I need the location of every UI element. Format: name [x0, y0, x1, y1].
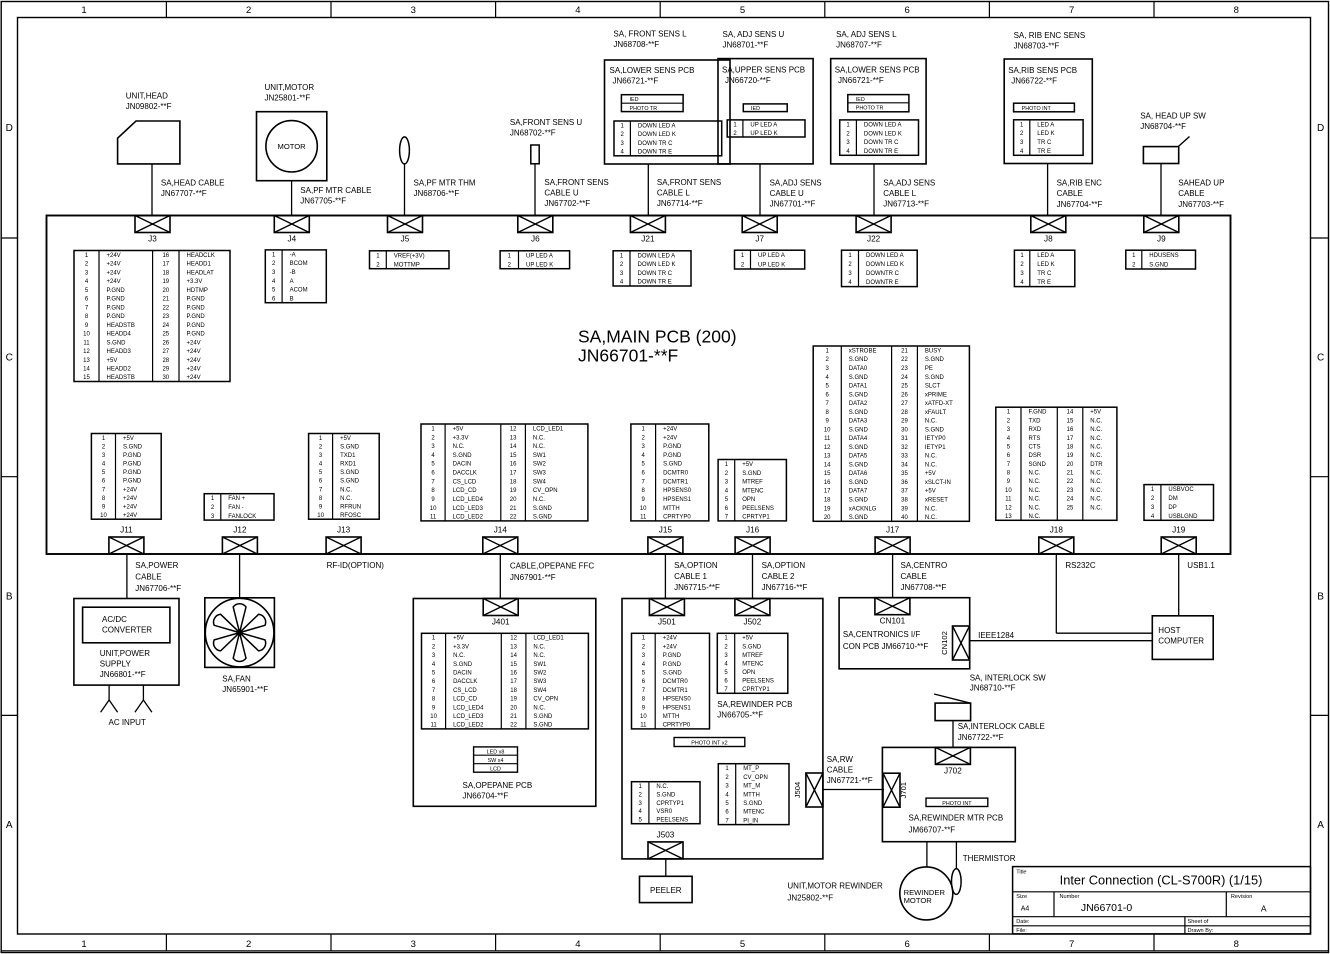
svg-text:JN68708-**F: JN68708-**F — [613, 40, 659, 49]
svg-text:15: 15 — [83, 375, 90, 381]
svg-text:+24V: +24V — [107, 279, 121, 285]
svg-text:SA,OPTION: SA,OPTION — [762, 561, 806, 570]
svg-text:USBVOC: USBVOC — [1168, 487, 1194, 493]
svg-text:A: A — [6, 820, 13, 831]
svg-text:S.GND: S.GND — [849, 357, 869, 363]
svg-text:CABLE: CABLE — [901, 572, 927, 581]
AC input fork 2 — [135, 685, 152, 712]
svg-text:19: 19 — [1067, 453, 1074, 459]
svg-text:xATFD-XT: xATFD-XT — [925, 401, 953, 407]
svg-text:23: 23 — [162, 314, 169, 320]
svg-text:P.GND: P.GND — [663, 662, 682, 668]
svg-text:CABLE: CABLE — [1178, 189, 1204, 198]
wire CN102 to host computer (IEEE1284) — [970, 640, 1153, 642]
wire J503 to peeler — [665, 859, 667, 876]
svg-text:40: 40 — [901, 515, 908, 521]
svg-text:UP LED K: UP LED K — [750, 131, 777, 137]
svg-text:S.GND: S.GND — [925, 375, 945, 381]
svg-text:MTTH: MTTH — [663, 714, 680, 720]
svg-text:CTS: CTS — [1029, 445, 1041, 451]
svg-text:N.C.: N.C. — [533, 497, 545, 503]
svg-text:UP LED A: UP LED A — [750, 122, 777, 128]
svg-text:DOWN TR C: DOWN TR C — [638, 141, 673, 147]
svg-text:MOTTMP: MOTTMP — [394, 262, 420, 268]
svg-text:HDUSENS: HDUSENS — [1149, 253, 1178, 259]
svg-text:19: 19 — [162, 279, 169, 285]
connector J14 — [483, 526, 518, 555]
svg-text:4: 4 — [575, 939, 580, 950]
pin table J8 — [1014, 250, 1074, 286]
svg-text:6: 6 — [904, 5, 909, 16]
svg-text:+5V: +5V — [742, 462, 753, 468]
svg-text:18: 18 — [510, 479, 517, 485]
svg-text:A: A — [290, 279, 294, 285]
svg-text:HOST: HOST — [1158, 626, 1180, 635]
svg-text:DATA2: DATA2 — [849, 401, 868, 407]
svg-text:IETYP1: IETYP1 — [925, 445, 946, 451]
svg-text:LED A: LED A — [1037, 253, 1054, 259]
svg-text:+5V: +5V — [340, 436, 351, 442]
svg-text:SA,REWINDER MTR PCB: SA,REWINDER MTR PCB — [909, 814, 1004, 823]
svg-text:+24V: +24V — [187, 340, 201, 346]
svg-text:SUPPLY: SUPPLY — [100, 659, 132, 668]
unit UNIT,POWER SUPPLY — [74, 599, 179, 686]
connector J13 — [326, 526, 361, 555]
svg-text:18: 18 — [1067, 445, 1074, 451]
svg-text:25: 25 — [901, 384, 908, 390]
svg-text:14: 14 — [1067, 410, 1074, 416]
svg-text:N.C.: N.C. — [1090, 505, 1102, 511]
pin table sensor RIB — [1014, 120, 1084, 156]
svg-text:MTENC: MTENC — [742, 488, 764, 494]
connector J4 — [274, 216, 309, 244]
svg-text:JN66721-**F: JN66721-**F — [613, 77, 659, 86]
pin table J503 — [632, 782, 701, 824]
svg-text:JN68703-**F: JN68703-**F — [1014, 41, 1060, 50]
svg-text:39: 39 — [901, 506, 908, 512]
svg-text:LCD_LED3: LCD_LED3 — [453, 506, 484, 512]
svg-text:JN67716-**F: JN67716-**F — [762, 583, 808, 592]
svg-text:UNIT,HEAD: UNIT,HEAD — [126, 92, 168, 101]
svg-text:DOWN LED A: DOWN LED A — [866, 253, 904, 259]
connector CN101 — [875, 598, 910, 626]
svg-text:DOWN TR C: DOWN TR C — [638, 271, 673, 277]
svg-text:xACKNLG: xACKNLG — [849, 506, 877, 512]
svg-text:+24V: +24V — [107, 262, 121, 268]
svg-text:N.C.: N.C. — [340, 496, 352, 502]
svg-text:LCD_CD: LCD_CD — [453, 697, 478, 703]
svg-text:HEADCLK: HEADCLK — [187, 253, 215, 259]
svg-text:S.GND: S.GND — [663, 671, 683, 677]
svg-text:+24V: +24V — [107, 253, 121, 259]
svg-text:SA,CENTRO: SA,CENTRO — [901, 561, 948, 570]
zone row ticks — [1, 238, 1328, 715]
svg-text:TR C: TR C — [1037, 140, 1052, 146]
svg-text:CABLE U: CABLE U — [544, 188, 578, 197]
svg-text:ACOM: ACOM — [290, 288, 308, 294]
svg-text:TR E: TR E — [1037, 280, 1051, 286]
svg-text:16: 16 — [510, 671, 517, 677]
svg-text:S.GND: S.GND — [340, 470, 360, 476]
svg-text:29: 29 — [162, 367, 169, 373]
connector J702 — [935, 747, 970, 775]
svg-text:UNIT,MOTOR REWINDER: UNIT,MOTOR REWINDER — [787, 882, 883, 891]
svg-text:N.C.: N.C. — [925, 454, 937, 460]
svg-text:JN67702-**F: JN67702-**F — [544, 199, 590, 208]
svg-text:S.GND: S.GND — [453, 453, 473, 459]
svg-text:+24V: +24V — [663, 435, 677, 441]
svg-text:SW4: SW4 — [533, 479, 547, 485]
svg-text:+5V: +5V — [1090, 410, 1101, 416]
svg-text:RTS: RTS — [1029, 436, 1041, 442]
svg-text:7: 7 — [1069, 939, 1074, 950]
svg-text:PE: PE — [925, 366, 933, 372]
svg-text:2: 2 — [246, 5, 251, 16]
connector J8 — [1031, 216, 1066, 244]
svg-text:29: 29 — [901, 419, 908, 425]
svg-text:J3: J3 — [148, 235, 157, 244]
svg-text:HEADD2: HEADD2 — [107, 367, 132, 373]
svg-text:N.C.: N.C. — [453, 444, 465, 450]
svg-text:DATA1: DATA1 — [849, 384, 868, 390]
svg-text:USBLGND: USBLGND — [1168, 514, 1198, 520]
svg-text:HPSENS1: HPSENS1 — [663, 497, 692, 503]
svg-text:+24V: +24V — [123, 496, 137, 502]
svg-text:J8: J8 — [1044, 235, 1053, 244]
svg-text:DOWN TR C: DOWN TR C — [864, 140, 899, 146]
svg-text:SW3: SW3 — [533, 679, 547, 685]
svg-text:B: B — [1317, 592, 1324, 603]
svg-text:JN66720-**F: JN66720-**F — [725, 76, 771, 85]
unit SA,FAN — [205, 598, 275, 668]
svg-text:CONVERTER: CONVERTER — [102, 626, 152, 635]
svg-text:MT_P: MT_P — [743, 766, 759, 772]
svg-text:DATA3: DATA3 — [849, 419, 868, 425]
pin table J5 — [370, 251, 450, 269]
svg-text:SA,REWINDER PCB: SA,REWINDER PCB — [717, 700, 792, 709]
svg-text:16: 16 — [1067, 427, 1074, 433]
svg-text:15: 15 — [510, 662, 517, 668]
svg-text:SA,MAIN PCB (200): SA,MAIN PCB (200) — [578, 327, 737, 347]
svg-text:PEELER: PEELER — [650, 886, 682, 895]
svg-text:+5V: +5V — [925, 471, 936, 477]
svg-text:TR E: TR E — [1037, 149, 1051, 155]
svg-text:LED K: LED K — [1037, 262, 1054, 268]
svg-text:HEADD4: HEADD4 — [107, 332, 132, 338]
svg-text:8: 8 — [1234, 939, 1239, 950]
svg-text:CPRTYP0: CPRTYP0 — [663, 515, 691, 521]
svg-text:JN68706-**F: JN68706-**F — [414, 189, 460, 198]
svg-text:JN68701-**F: JN68701-**F — [723, 41, 769, 50]
svg-text:HEADLAT: HEADLAT — [187, 270, 215, 276]
svg-text:File:: File: — [1016, 928, 1027, 934]
svg-text:10: 10 — [317, 513, 324, 519]
svg-text:DCMTR1: DCMTR1 — [663, 479, 689, 485]
svg-text:DOWN LED A: DOWN LED A — [638, 253, 676, 259]
svg-text:N.C.: N.C. — [1090, 453, 1102, 459]
svg-text:OPN: OPN — [742, 497, 755, 503]
svg-text:+3.3V: +3.3V — [453, 435, 469, 441]
svg-text:32: 32 — [901, 445, 908, 451]
svg-text:BCOM: BCOM — [290, 261, 308, 267]
svg-text:DACCLK: DACCLK — [453, 471, 477, 477]
svg-text:A: A — [1261, 904, 1267, 914]
svg-text:DATA0: DATA0 — [849, 366, 868, 372]
svg-text:F.GND: F.GND — [1029, 410, 1048, 416]
svg-text:MTREF: MTREF — [742, 480, 763, 486]
svg-text:xSTROBE: xSTROBE — [849, 349, 877, 355]
wire J19 USB to host computer — [1178, 554, 1180, 616]
svg-text:P.GND: P.GND — [187, 297, 206, 303]
svg-text:S.GND: S.GND — [849, 427, 869, 433]
svg-text:+24V: +24V — [187, 367, 201, 373]
svg-text:CPRTYP0: CPRTYP0 — [663, 723, 691, 729]
opepane parts boxes LED/SW/LCD — [474, 747, 518, 772]
svg-text:Inter Connection (CL-S700R) (1: Inter Connection (CL-S700R) (1/15) — [1060, 873, 1263, 888]
board SA,REWINDER PCB — [622, 599, 823, 859]
sensor SA,FRONT SENS U symbol — [531, 145, 539, 164]
svg-text:S.GND: S.GND — [663, 462, 683, 468]
svg-text:SA, INTERLOCK SW: SA, INTERLOCK SW — [970, 674, 1046, 683]
connector J9 — [1144, 216, 1179, 244]
svg-text:xRESET: xRESET — [925, 498, 948, 504]
svg-text:A: A — [1317, 820, 1324, 831]
svg-text:21: 21 — [1067, 471, 1074, 477]
wire motor to J4 — [291, 181, 293, 216]
pin table J21 — [613, 251, 691, 286]
svg-text:RXD: RXD — [1029, 427, 1042, 433]
svg-text:SA,ADJ SENS: SA,ADJ SENS — [883, 178, 935, 187]
svg-text:CPRTYP1: CPRTYP1 — [656, 801, 684, 807]
wire J16 to J502 — [752, 554, 754, 599]
svg-text:DCMTR0: DCMTR0 — [663, 471, 689, 477]
svg-text:JN67714-**F: JN67714-**F — [657, 199, 703, 208]
svg-text:12: 12 — [83, 349, 90, 355]
svg-text:10: 10 — [824, 427, 831, 433]
svg-text:16: 16 — [162, 253, 169, 259]
svg-text:S.GND: S.GND — [123, 445, 143, 451]
title block — [1013, 867, 1311, 935]
svg-text:DOWNTR C: DOWNTR C — [866, 271, 900, 277]
board SA,LOWER SENS PCB (adj) — [831, 59, 926, 164]
svg-text:28: 28 — [162, 358, 169, 364]
pin table J17 — [813, 346, 969, 521]
pin table J18 — [996, 407, 1117, 520]
svg-text:22: 22 — [510, 723, 517, 729]
svg-text:J503: J503 — [657, 830, 675, 839]
svg-text:N.C.: N.C. — [656, 784, 668, 790]
svg-text:10: 10 — [83, 332, 90, 338]
svg-text:FANLOCK: FANLOCK — [228, 514, 256, 520]
svg-text:JN67707-**F: JN67707-**F — [161, 189, 207, 198]
svg-text:22: 22 — [162, 305, 169, 311]
svg-text:J701: J701 — [899, 782, 908, 798]
svg-text:xFAULT: xFAULT — [925, 410, 947, 416]
svg-text:SA,FAN: SA,FAN — [222, 675, 251, 684]
svg-text:21: 21 — [901, 349, 908, 355]
pin table J3 — [74, 251, 230, 382]
wire J14 to J401 — [499, 554, 501, 599]
svg-text:P.GND: P.GND — [663, 444, 682, 450]
svg-text:JN68707-**F: JN68707-**F — [836, 41, 882, 50]
svg-text:13: 13 — [510, 644, 517, 650]
svg-text:DOWN LED A: DOWN LED A — [864, 122, 902, 128]
svg-text:SA, FRONT SENS L: SA, FRONT SENS L — [613, 30, 687, 39]
svg-text:11: 11 — [640, 515, 647, 521]
svg-text:JN67708-**F: JN67708-**F — [901, 583, 947, 592]
svg-text:IEEE1284: IEEE1284 — [978, 631, 1015, 640]
wire thermistor to J5 — [404, 164, 406, 216]
svg-text:DACCLK: DACCLK — [453, 679, 477, 685]
svg-text:N.C.: N.C. — [1090, 418, 1102, 424]
svg-text:SA,FRONT SENS: SA,FRONT SENS — [657, 178, 721, 187]
svg-text:N.C.: N.C. — [925, 419, 937, 425]
svg-text:3: 3 — [411, 939, 416, 950]
svg-text:CPRTYP1: CPRTYP1 — [742, 687, 770, 693]
connector J6 — [518, 216, 553, 244]
svg-text:N.C.: N.C. — [1029, 505, 1041, 511]
board SA,UPPER SENS PCB — [718, 59, 813, 164]
svg-text:P.GND: P.GND — [107, 297, 126, 303]
svg-text:S.GND: S.GND — [340, 479, 360, 485]
svg-text:+24V: +24V — [123, 504, 137, 510]
svg-text:S.GND: S.GND — [533, 515, 553, 521]
svg-text:N.C.: N.C. — [533, 705, 545, 711]
svg-text:UP LED A: UP LED A — [526, 253, 553, 259]
zone column ticks bottom — [166, 934, 1154, 951]
svg-text:N.C.: N.C. — [453, 653, 465, 659]
wire J504 to J701 — [823, 789, 884, 791]
svg-text:CABLE L: CABLE L — [883, 189, 916, 198]
svg-text:13: 13 — [510, 435, 517, 441]
svg-text:JN09802-**F: JN09802-**F — [126, 102, 172, 111]
svg-text:SA, ADJ SENS U: SA, ADJ SENS U — [723, 30, 785, 39]
svg-text:IETYP0: IETYP0 — [925, 436, 946, 442]
svg-text:RFOSC: RFOSC — [340, 513, 362, 519]
svg-text:CS_LCD: CS_LCD — [453, 479, 477, 485]
svg-text:37: 37 — [901, 489, 908, 495]
svg-text:S.GND: S.GND — [340, 445, 360, 451]
svg-text:SA,OPTION: SA,OPTION — [674, 561, 718, 570]
svg-text:LCD_CD: LCD_CD — [453, 488, 478, 494]
pin table J501 — [632, 633, 710, 729]
unit UNIT,MOTOR symbol — [257, 112, 327, 181]
svg-text:PI_IN: PI_IN — [743, 818, 758, 824]
svg-text:20: 20 — [510, 705, 517, 711]
svg-text:18: 18 — [162, 270, 169, 276]
unit HOST COMPUTER — [1152, 616, 1213, 660]
svg-text:S.GND: S.GND — [453, 662, 473, 668]
svg-text:30: 30 — [162, 375, 169, 381]
svg-text:IED: IED — [630, 97, 639, 103]
pin table J11 — [91, 434, 161, 520]
svg-text:C: C — [1317, 353, 1324, 364]
pin table sensor U — [727, 120, 805, 137]
svg-text:JN66701-0: JN66701-0 — [1081, 902, 1133, 914]
svg-text:LCD_LED3: LCD_LED3 — [453, 714, 484, 720]
svg-text:20: 20 — [1067, 462, 1074, 468]
svg-text:CN101: CN101 — [880, 617, 906, 626]
svg-text:SA,INTERLOCK CABLE: SA,INTERLOCK CABLE — [958, 722, 1045, 731]
svg-text:N.C.: N.C. — [1090, 471, 1102, 477]
svg-text:S.GND: S.GND — [925, 357, 945, 363]
svg-text:13: 13 — [824, 454, 831, 460]
svg-text:N.C.: N.C. — [533, 435, 545, 441]
svg-text:+3.3V: +3.3V — [187, 279, 203, 285]
svg-text:N.C.: N.C. — [533, 644, 545, 650]
svg-text:14: 14 — [824, 462, 831, 468]
svg-text:P.GND: P.GND — [123, 470, 142, 476]
connector J22 — [856, 216, 891, 244]
svg-text:17: 17 — [510, 679, 517, 685]
svg-text:31: 31 — [901, 436, 908, 442]
svg-text:LCD: LCD — [490, 766, 501, 772]
svg-text:SW2: SW2 — [533, 671, 547, 677]
svg-text:DOWN LED K: DOWN LED K — [638, 262, 676, 268]
svg-text:N.C.: N.C. — [925, 515, 937, 521]
svg-text:N.C.: N.C. — [925, 462, 937, 468]
svg-text:N.C.: N.C. — [1090, 488, 1102, 494]
connector J5 — [388, 216, 423, 244]
svg-text:JN67704-**F: JN67704-**F — [1057, 200, 1103, 209]
svg-text:C: C — [6, 353, 13, 364]
svg-text:N.C.: N.C. — [1090, 427, 1102, 433]
svg-text:P.GND: P.GND — [107, 288, 126, 294]
wire rib sens PCB to J8 — [1047, 164, 1049, 216]
unit UNIT,HEAD symbol — [118, 121, 180, 164]
svg-text:UNIT,POWER: UNIT,POWER — [100, 649, 150, 658]
svg-text:SA,RIB SENS PCB: SA,RIB SENS PCB — [1008, 66, 1077, 75]
svg-text:J13: J13 — [337, 526, 351, 535]
connector J502 — [735, 599, 770, 627]
svg-text:J501: J501 — [658, 618, 676, 627]
svg-text:MTENC: MTENC — [743, 810, 765, 816]
svg-text:8: 8 — [1234, 5, 1239, 16]
svg-text:P.GND: P.GND — [187, 305, 206, 311]
svg-text:S.GND: S.GND — [533, 506, 553, 512]
svg-text:-B: -B — [290, 270, 296, 276]
svg-text:JN25802-**F: JN25802-**F — [787, 894, 833, 903]
svg-text:14: 14 — [83, 367, 90, 373]
pin table J22 — [842, 250, 918, 286]
svg-text:+24V: +24V — [187, 358, 201, 364]
svg-text:OPN: OPN — [742, 670, 755, 676]
svg-text:xPRIME: xPRIME — [925, 392, 947, 398]
svg-text:+5V: +5V — [453, 427, 464, 433]
svg-text:12: 12 — [510, 636, 517, 642]
svg-text:FAN +: FAN + — [228, 496, 245, 502]
svg-text:PHOTO TR: PHOTO TR — [630, 106, 658, 112]
board SA,LOWER SENS PCB (front) — [605, 60, 731, 164]
svg-text:UP LED K: UP LED K — [758, 262, 785, 268]
svg-text:LCD_LED1: LCD_LED1 — [533, 427, 564, 433]
svg-text:N.C.: N.C. — [1029, 488, 1041, 494]
svg-text:SA,RIB ENC: SA,RIB ENC — [1057, 179, 1103, 188]
unit PEELER — [640, 876, 693, 902]
connector J18 — [1039, 526, 1074, 555]
connector J503 — [648, 830, 683, 859]
svg-text:11: 11 — [430, 723, 437, 729]
svg-text:20: 20 — [510, 497, 517, 503]
svg-text:THERMISTOR: THERMISTOR — [963, 854, 1016, 863]
svg-text:JN67705-**F: JN67705-**F — [300, 197, 346, 206]
svg-text:20: 20 — [162, 288, 169, 294]
svg-text:HPSENS0: HPSENS0 — [663, 488, 692, 494]
svg-text:FAN -: FAN - — [228, 505, 243, 511]
pin table J7 — [735, 250, 805, 269]
svg-text:Size: Size — [1016, 894, 1027, 900]
pin table J13 — [309, 434, 380, 520]
